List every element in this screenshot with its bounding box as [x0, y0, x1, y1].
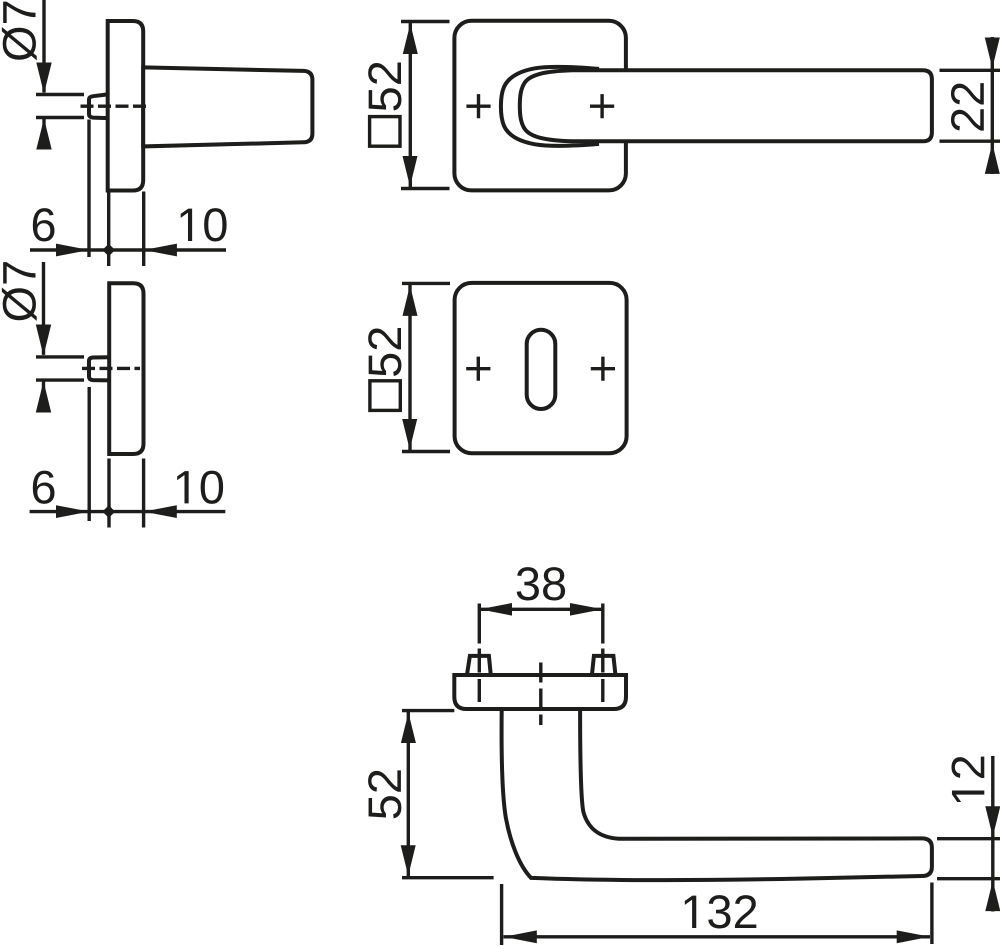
- cross right rose1: [590, 94, 614, 118]
- label 22: [951, 83, 984, 131]
- label 10 view2: [177, 471, 223, 504]
- arrow down rose1: [403, 156, 418, 187]
- extension line left 38: [478, 604, 481, 644]
- arrow down 12: [985, 806, 1000, 836]
- dimension line 6/10 view1: [30, 248, 226, 251]
- screw boss view2: [89, 357, 109, 380]
- arrow down 22: [985, 38, 1000, 69]
- arrow down Ø7 view1: [36, 63, 51, 94]
- tick bottom rose1: [401, 187, 450, 190]
- arrow right 132: [897, 930, 930, 943]
- rose slab view2: [109, 283, 143, 454]
- label 132: [685, 895, 757, 928]
- centerline flange: [539, 663, 542, 726]
- arrow right view1: [56, 244, 89, 257]
- label 6 view1: [33, 208, 55, 241]
- extension line rose-left view1: [107, 192, 110, 267]
- rose slab view1: [108, 21, 144, 191]
- extension line boss view2: [87, 387, 90, 521]
- tick top 52 bottom: [402, 709, 454, 712]
- label 38: [517, 567, 565, 600]
- dimension line 132: [504, 935, 931, 938]
- tick top rose2: [402, 282, 450, 285]
- label 52 rose1: [368, 62, 401, 110]
- label 52 bottom: [368, 770, 401, 818]
- arrow up 52 bottom: [401, 713, 416, 743]
- label 6 view2: [33, 471, 55, 504]
- cross right rose2: [591, 357, 615, 381]
- tick lower Ø7 view2: [36, 378, 84, 381]
- label Ø7 view1: [2, 2, 37, 61]
- screw boss view1: [89, 94, 108, 118]
- label Ø7 view2: [2, 262, 37, 321]
- arrow up rose2: [403, 285, 418, 316]
- tick top 22: [940, 69, 1000, 72]
- arrow up rose1: [403, 24, 418, 55]
- tick bottom 12: [937, 877, 1000, 880]
- square symbol rose2: [370, 381, 400, 411]
- label 10 view1: [181, 208, 227, 241]
- extension line rose-left view2: [107, 459, 110, 528]
- dimension line 6/10 view2: [30, 510, 226, 513]
- handle outer curve rose1: [501, 67, 599, 146]
- centerline screw left: [478, 649, 481, 703]
- diamond dot view2: [102, 505, 115, 518]
- tick upper Ø7 view2: [36, 355, 84, 358]
- keyhole rose2: [527, 330, 556, 409]
- arrow up 12: [985, 881, 1000, 911]
- dimension line Ø7 view2: [42, 262, 45, 412]
- centerline view2: [82, 367, 140, 370]
- arrow right 38: [570, 603, 603, 616]
- arrow left view1: [144, 244, 177, 257]
- tick bottom 52 bottom: [402, 876, 494, 879]
- cross left rose1: [466, 94, 490, 118]
- arrow up Ø7 view1: [36, 119, 51, 150]
- square rose1: [454, 21, 626, 191]
- handle bar rose1: [520, 70, 932, 141]
- square symbol rose1: [370, 117, 400, 147]
- tick lower Ø7 view1: [36, 116, 84, 119]
- screw post right: [592, 656, 616, 675]
- arrow left view2: [144, 505, 177, 518]
- dimension line 22: [991, 37, 994, 174]
- arrow down 52 bottom: [401, 845, 416, 875]
- arrow down rose2: [402, 419, 417, 450]
- arrow down Ø7 view2: [36, 325, 51, 356]
- tick bottom 22: [940, 139, 1000, 142]
- handle neck view1: [143, 67, 312, 146]
- flange: [454, 675, 626, 709]
- extension line left 132: [500, 884, 503, 945]
- arrow right view2: [56, 505, 89, 518]
- centerline view1: [81, 104, 151, 107]
- dimension line Ø7 view1: [42, 0, 45, 149]
- dimension line 38: [479, 608, 603, 611]
- square rose2: [455, 283, 627, 453]
- dimension line 52 rose1: [409, 23, 412, 188]
- arrow up 22: [985, 143, 1000, 174]
- arrow left 132: [504, 930, 537, 943]
- label 12: [951, 757, 984, 802]
- extension line boss view1: [87, 120, 90, 258]
- extension line rose-right view2: [142, 459, 145, 528]
- extension line right 38: [601, 604, 604, 644]
- handle profile: [502, 709, 932, 880]
- label 52 rose2: [368, 328, 401, 376]
- screw post left: [467, 656, 491, 675]
- centerline screw right: [601, 649, 604, 703]
- tick bottom rose2: [402, 450, 450, 453]
- cross left rose2: [466, 357, 490, 381]
- dimension line 52 rose2: [408, 284, 411, 450]
- tick upper Ø7 view1: [36, 93, 84, 96]
- extension line right 132: [930, 883, 933, 945]
- extension line rose-right view1: [142, 192, 145, 267]
- dimension line 12: [991, 756, 994, 912]
- dimension line 52 bottom: [407, 712, 410, 877]
- diamond dot view1: [102, 244, 115, 257]
- tick top rose1: [401, 20, 450, 23]
- arrow up Ø7 view2: [36, 381, 51, 412]
- arrow left 38: [480, 603, 512, 616]
- tick top 12: [937, 837, 1000, 840]
